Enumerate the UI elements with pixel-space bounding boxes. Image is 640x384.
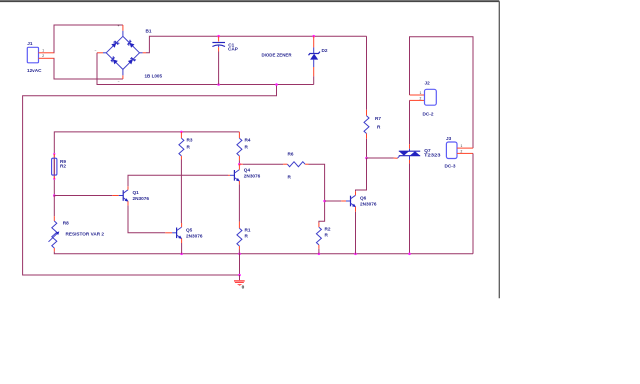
bridge rectifier B1 [95, 24, 163, 84]
wire R1 bottom to rail [238, 250, 240, 254]
svg-text:2N3076: 2N3076 [186, 233, 203, 238]
svg-text:B1: B1 [146, 29, 152, 34]
junction Q6 base node [323, 200, 326, 203]
wire top rail corner down to R7 [366, 36, 368, 110]
variable resistor R8 [49, 216, 105, 251]
resistor R4 [237, 132, 251, 161]
wire R7 down to gate node [366, 139, 368, 158]
wire inner top rail [54, 132, 239, 196]
resistor R1 [237, 222, 251, 250]
resistor R7 [364, 110, 381, 139]
wire Q5 emitter to rail [181, 243, 183, 254]
svg-text:12vAC: 12vAC [27, 68, 42, 73]
pin stub bridge right [143, 52, 146, 54]
wire Q4 emitter down to R1 [238, 184, 240, 221]
wire J2 pin2 down to triac [409, 100, 411, 144]
transistor Q4 [228, 164, 261, 184]
svg-text:D2: D2 [322, 48, 328, 53]
bridge diamond edges [106, 36, 123, 53]
diode D top-right [129, 43, 134, 48]
svg-text:−: − [118, 80, 120, 84]
junction R9 bottom pin [53, 178, 55, 180]
svg-text:Q4: Q4 [244, 167, 251, 172]
wire C1 bottom [218, 52, 220, 85]
wire bridge right output up to top rail [146, 36, 367, 53]
svg-text:R4: R4 [245, 138, 251, 143]
junction ground node on rail [238, 253, 241, 256]
transistor Q1 [112, 186, 149, 205]
svg-text:J1: J1 [27, 41, 33, 46]
junction Q1 base node [53, 194, 56, 197]
svg-text:CAP: CAP [228, 47, 238, 52]
wire R3 bottom to Q5 collector [180, 160, 182, 224]
svg-text:DIODE ZENER: DIODE ZENER [262, 53, 293, 58]
ground symbol 0 [234, 281, 245, 291]
svg-text:R7: R7 [375, 116, 381, 121]
junction gate node [365, 157, 368, 160]
wire J3 pin2 down to bottom rail [472, 153, 474, 253]
svg-text:2N3076: 2N3076 [244, 173, 261, 178]
junction triac MT1 on rail [408, 253, 411, 256]
junction R9 top pin [53, 153, 55, 155]
connector J3 [445, 136, 474, 168]
wire J2 pin1 riser and top link to J3 [410, 37, 474, 148]
bridge leads [122, 31, 124, 37]
pin stub bridge left [97, 52, 103, 54]
svg-text:~: ~ [95, 49, 97, 53]
svg-text:R2: R2 [325, 227, 331, 232]
wire ground drop [239, 254, 241, 275]
wire R9 bottom to R8 [53, 196, 55, 217]
wire R2 bottom to rail [318, 249, 320, 254]
junction R2 bottom on rail [318, 253, 321, 256]
diode D bottom-left [113, 59, 118, 64]
wire D2 bottom [313, 76, 315, 84]
wire Q6 base node to Q6 [325, 200, 342, 202]
svg-text:R3: R3 [187, 138, 193, 143]
svg-text:RESISTOR VAR 2: RESISTOR VAR 2 [66, 231, 105, 236]
wire J1 pin2 stub [39, 57, 55, 59]
svg-text:2N3076: 2N3076 [133, 196, 150, 201]
svg-text:J3: J3 [446, 136, 452, 141]
svg-text:R2: R2 [60, 164, 66, 169]
svg-text:1B L005: 1B L005 [145, 74, 163, 79]
svg-text:Q1: Q1 [133, 190, 140, 195]
svg-text:R1: R1 [245, 228, 251, 233]
resistor R6 [283, 152, 308, 180]
svg-text:R6: R6 [288, 152, 294, 157]
wire node to R6 [243, 163, 283, 165]
connector J1 [27, 41, 42, 73]
wire gate node to triac gate [367, 157, 394, 159]
wire Q1 base [54, 195, 112, 197]
sheet border right [498, 1, 500, 298]
resistor R2 [316, 223, 330, 249]
wire J1 pin1 stub [39, 52, 55, 54]
diode D top-left [111, 43, 116, 48]
wire ground stub [239, 275, 241, 280]
junction C1 top [217, 35, 220, 38]
wire R4 bottom to collector node [238, 161, 240, 165]
junction Q6 emitter on rail [354, 253, 357, 256]
resistor R9 (box style) [52, 154, 67, 179]
svg-text:1: 1 [461, 144, 463, 148]
wire gate node down to Q6 collector [356, 158, 367, 191]
svg-text:T2323: T2323 [424, 153, 441, 158]
pin stub bridge bottom [122, 75, 124, 79]
junction at C1 bottom [217, 83, 220, 86]
wire Q1 emitter down and right to Q5 base [128, 205, 165, 232]
svg-text:DC-3: DC-3 [445, 163, 456, 168]
wire Q1 collector up and right to Q4 base [128, 175, 228, 186]
svg-text:Q5: Q5 [186, 227, 193, 232]
diode D bottom-right [128, 59, 133, 64]
transistor Q5 [165, 223, 203, 243]
junction R3 top [180, 131, 183, 134]
svg-text:J2: J2 [425, 81, 431, 86]
pin stub bridge top [122, 25, 124, 31]
svg-text:+: + [118, 24, 120, 28]
junction Q5 emitter on rail [180, 253, 183, 256]
wire bridge left AC loop [97, 53, 314, 85]
svg-text:Q6: Q6 [360, 196, 367, 201]
wire J1 pin2 down to bridge bottom [54, 58, 123, 79]
junction ground tee [238, 274, 241, 277]
junction at outer loop branch [275, 83, 278, 86]
wire branch down to outer loop [23, 85, 277, 276]
junction D2 top [312, 35, 315, 38]
svg-text:2N3076: 2N3076 [360, 202, 377, 207]
zener diode D2 [309, 36, 328, 76]
svg-text:DC-2: DC-2 [423, 112, 434, 117]
svg-text:0: 0 [242, 285, 245, 291]
wire J1 pin1 up [54, 25, 123, 53]
connector J2 [410, 81, 437, 117]
junction Q4 collector node [238, 163, 241, 166]
svg-text:R8: R8 [63, 221, 69, 226]
svg-text:1: 1 [420, 91, 422, 95]
sheet border top [0, 0, 499, 2]
wire Q6 emitter down to rail [355, 212, 357, 254]
resistor R3 [179, 132, 193, 160]
svg-text:2: 2 [420, 97, 422, 101]
wire R8 to bottom rail corner [54, 252, 473, 254]
triac Q7 [394, 144, 441, 163]
transistor Q6 [341, 191, 377, 212]
svg-text:2: 2 [42, 54, 44, 58]
wire R6 right down to R2 and Q6 base node [309, 164, 325, 222]
wire triac MT1 down to bottom rail [409, 163, 411, 253]
svg-text:1: 1 [42, 48, 44, 52]
capacitor C1 [212, 36, 238, 51]
